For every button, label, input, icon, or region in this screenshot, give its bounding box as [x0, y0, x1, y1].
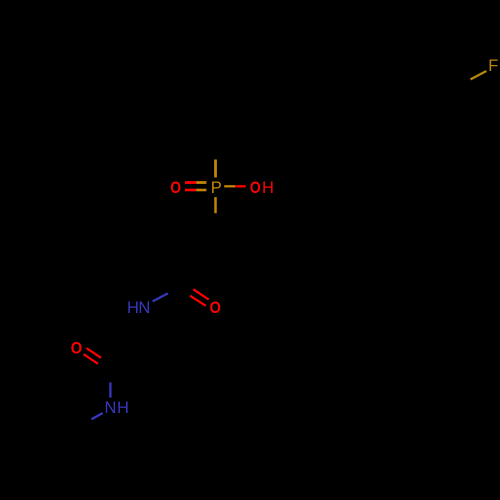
svg-text:O: O	[250, 179, 261, 197]
atom label O (amide 1 carbonyl oxygen)	[210, 299, 221, 317]
bond P=O upper line, red O-half	[185, 181, 196, 184]
bond C=O amide 2 upper line, red O-half	[87, 348, 101, 358]
svg-text:O: O	[210, 299, 221, 317]
atom label F (fluorine, top right)	[488, 57, 498, 75]
bond P=O lower line, gold P-half	[196, 189, 206, 192]
bond C-F (fluorine half, gold stub)	[471, 71, 487, 79]
svg-text:N: N	[104, 399, 116, 417]
svg-text:O: O	[170, 179, 181, 197]
svg-text:N: N	[138, 299, 150, 317]
bond P-OH, gold P-half	[224, 185, 235, 187]
bond P-CH3 up (gold P-half, methyl above)	[214, 160, 217, 178]
bond N-C amide 2 substituent, blue N-half (down-left stub)	[92, 413, 103, 419]
bond P=O lower line, red O-half	[185, 189, 196, 192]
svg-text:O: O	[71, 339, 83, 357]
bond P-OH, red O-half	[235, 185, 245, 187]
atom label O (phosphoryl oxygen, left of P)	[170, 179, 181, 197]
svg-text:P: P	[211, 179, 222, 197]
atom label O (amide 2 carbonyl oxygen)	[71, 339, 83, 357]
atom label NH (amide 2 nitrogen)	[104, 399, 129, 417]
bond C-N amide 2, blue N-half (vertical)	[109, 382, 111, 397]
bond C=O amide 2 lower line, red O-half	[84, 354, 98, 364]
atom label P (phosphorus)	[211, 179, 222, 197]
svg-text:F: F	[488, 57, 498, 75]
bond P=O upper line, gold P-half	[196, 181, 206, 184]
svg-text:H: H	[127, 299, 139, 317]
bond P-C down (gold P-half, chain below)	[214, 197, 217, 213]
svg-text:H: H	[262, 179, 274, 197]
bond C=O amide 1 lower line, red O-half	[190, 296, 206, 306]
svg-text:H: H	[117, 399, 129, 417]
bond C=O amide 1 upper line, red O-half	[193, 289, 209, 299]
atom label OH (hydroxyl on P)	[250, 179, 274, 197]
bond N-C(=O) amide 1, blue N-half	[153, 293, 168, 301]
atom label HN (amide 1 nitrogen)	[127, 299, 150, 317]
